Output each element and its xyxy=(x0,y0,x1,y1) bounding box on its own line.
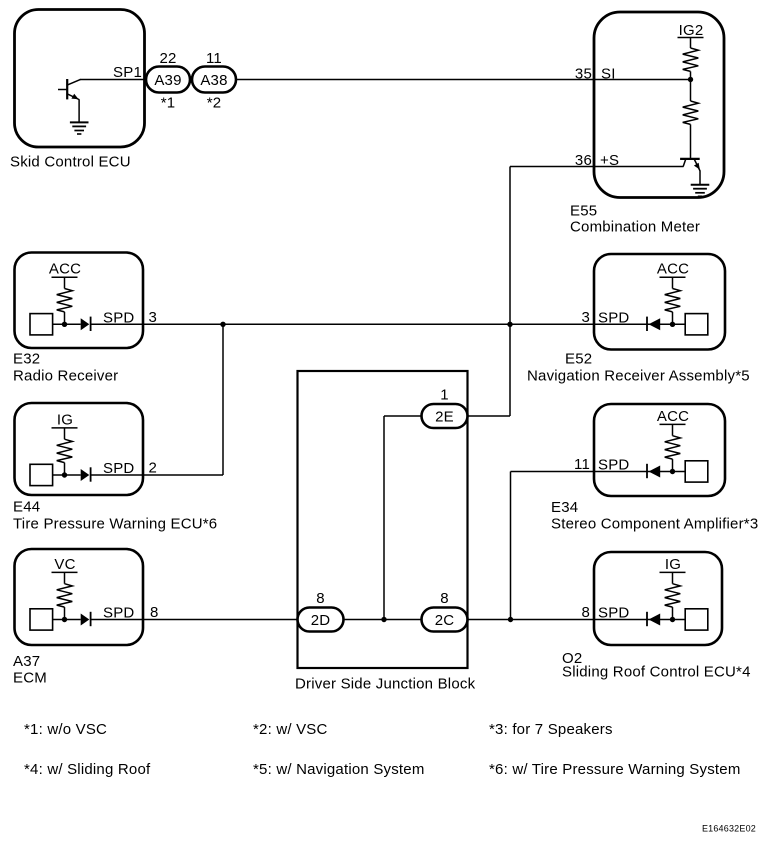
wire +S to junction block 2E (horizontal top) xyxy=(510,166,684,168)
svg-text:1: 1 xyxy=(440,387,449,404)
resistor (E34) xyxy=(665,424,681,471)
component box E52 Navigation Receiver Assembly xyxy=(594,254,725,350)
wire 2E branch vertical xyxy=(383,416,385,620)
svg-text:36: 36 xyxy=(575,152,592,169)
component box A37 ECM xyxy=(15,549,144,645)
transistor (E55) xyxy=(680,159,700,185)
power label ACC (E34) xyxy=(657,408,689,425)
svg-text:2D: 2D xyxy=(311,612,331,629)
wire E34 branch down to 2C output xyxy=(510,472,512,620)
connector square (A37) xyxy=(30,609,53,630)
junction connector 2D (2D) xyxy=(298,608,344,632)
node SPD bus crosses +S riser xyxy=(507,322,512,327)
svg-text:SPD: SPD xyxy=(103,605,134,622)
svg-text:SPD: SPD xyxy=(103,460,134,477)
svg-text:SPD: SPD xyxy=(598,605,629,622)
svg-text:8: 8 xyxy=(150,604,159,621)
power label IG (O2) xyxy=(660,556,686,573)
junction connector 2E (2E) xyxy=(422,404,468,428)
resistor R2 (E55) xyxy=(683,80,699,159)
svg-text:8: 8 xyxy=(316,590,325,607)
svg-text:SPD: SPD xyxy=(103,309,134,326)
power label VC (A37) xyxy=(52,556,78,573)
svg-text:+S: +S xyxy=(600,152,619,169)
node SPD bus to E44 branch xyxy=(220,322,225,327)
svg-text:E164632E02: E164632E02 xyxy=(702,824,756,834)
wire E44 SPD to branch xyxy=(91,474,223,476)
svg-text:IG: IG xyxy=(57,411,73,428)
svg-text:VC: VC xyxy=(54,556,75,573)
wire 2E branch horizontal to oval xyxy=(384,415,422,417)
connector square (E44) xyxy=(30,464,53,485)
component box O2 Sliding Roof Control ECU xyxy=(594,552,722,645)
connector square (O2) xyxy=(685,609,708,630)
ground (Skid Control ECU) xyxy=(70,122,89,134)
svg-text:E34: E34 xyxy=(551,499,578,516)
wire E34 SPD horizontal xyxy=(511,471,648,473)
wire square to diode (E32) xyxy=(53,323,81,325)
node at resistor bottom (E34) xyxy=(670,469,675,474)
resistor R1 (E55) xyxy=(683,38,699,80)
svg-text:3: 3 xyxy=(581,309,590,326)
connector square (E34) xyxy=(685,461,708,482)
svg-text:11: 11 xyxy=(206,50,222,67)
svg-text:*3: for 7 Speakers: *3: for 7 Speakers xyxy=(489,721,613,738)
svg-text:SP1: SP1 xyxy=(113,64,142,81)
node E34 branch joins 2C-Q2 wire xyxy=(508,617,513,622)
svg-text:Stereo Component Amplifier*3: Stereo Component Amplifier*3 xyxy=(551,516,758,533)
junction block box Driver Side Junction Block xyxy=(298,371,468,668)
svg-text:Driver Side Junction Block: Driver Side Junction Block xyxy=(295,676,476,693)
svg-text:A38: A38 xyxy=(200,72,227,89)
power label ACC (E52) xyxy=(657,261,689,278)
svg-text:11: 11 xyxy=(574,456,590,473)
node SI (E55) xyxy=(688,77,693,82)
node at resistor bottom (A37) xyxy=(62,617,67,622)
component box E32 Radio Receiver xyxy=(15,253,144,349)
svg-text:35: 35 xyxy=(575,65,592,82)
node at resistor bottom (E44) xyxy=(62,472,67,477)
svg-text:*2: w/ VSC: *2: w/ VSC xyxy=(253,721,328,738)
svg-text:2C: 2C xyxy=(435,612,455,629)
power label ACC (E32) xyxy=(49,261,81,278)
svg-text:Radio Receiver: Radio Receiver xyxy=(13,368,118,385)
svg-text:*2: *2 xyxy=(207,95,222,112)
svg-text:E55: E55 xyxy=(570,203,597,220)
connector square (E32) xyxy=(30,314,53,335)
diode (E44) xyxy=(81,467,91,481)
wire square to diode (E44) xyxy=(53,474,81,476)
component box E34 Stereo Component Amplifier xyxy=(594,404,725,496)
wire 2C to Q2 SPD xyxy=(468,619,648,621)
wire square to diode (A37) xyxy=(53,619,81,621)
wire +S vertical drop to 2E xyxy=(509,167,511,417)
svg-text:SI: SI xyxy=(601,65,616,82)
wire diode to square (E34) xyxy=(647,471,685,473)
svg-text:ACC: ACC xyxy=(657,261,689,278)
junction connector 2C (2C) xyxy=(422,608,468,632)
svg-text:2E: 2E xyxy=(435,408,454,425)
svg-text:2: 2 xyxy=(149,460,158,477)
svg-text:IG: IG xyxy=(665,556,681,573)
node at resistor bottom (E52) xyxy=(670,322,675,327)
transistor (Skid Control ECU) xyxy=(58,79,81,122)
svg-text:Navigation Receiver Assembly*5: Navigation Receiver Assembly*5 xyxy=(527,368,750,385)
svg-text:8: 8 xyxy=(581,604,590,621)
component box E55 Combination Meter xyxy=(594,12,724,198)
junction connector A39 (A39) xyxy=(146,67,190,93)
svg-text:3: 3 xyxy=(149,309,158,326)
node at resistor bottom (E32) xyxy=(62,322,67,327)
diode (O2) xyxy=(647,612,660,626)
svg-text:A37: A37 xyxy=(13,653,40,670)
svg-text:Skid Control ECU: Skid Control ECU xyxy=(10,154,131,171)
svg-text:E32: E32 xyxy=(13,351,40,368)
component box E44 Tire Pressure Warning ECU xyxy=(15,403,144,495)
node at resistor bottom (O2) xyxy=(670,617,675,622)
diode (E34) xyxy=(647,464,660,478)
wire SP1 to combination meter SI xyxy=(80,79,691,81)
diode (A37) xyxy=(81,612,91,626)
svg-text:Sliding Roof Control ECU*4: Sliding Roof Control ECU*4 xyxy=(562,664,751,681)
svg-text:ACC: ACC xyxy=(657,408,689,425)
svg-text:ECM: ECM xyxy=(13,670,47,687)
resistor (O2) xyxy=(665,572,681,619)
diode (E52) xyxy=(647,317,660,331)
svg-text:Combination Meter: Combination Meter xyxy=(570,219,700,236)
wire diode to square (E52) xyxy=(647,323,685,325)
svg-text:*1: *1 xyxy=(161,95,176,112)
resistor (E44) xyxy=(57,428,73,475)
svg-text:E44: E44 xyxy=(13,499,40,516)
svg-text:ACC: ACC xyxy=(49,261,81,278)
svg-text:Tire Pressure Warning ECU*6: Tire Pressure Warning ECU*6 xyxy=(13,516,217,533)
node 2E branch joins 2D-2C wire xyxy=(381,617,386,622)
svg-text:8: 8 xyxy=(440,590,449,607)
resistor (E52) xyxy=(665,277,681,324)
power label IG (E44) xyxy=(52,411,78,428)
wire branch down to E44 xyxy=(222,324,224,475)
svg-text:*4: w/ Sliding Roof: *4: w/ Sliding Roof xyxy=(24,761,151,778)
svg-text:E52: E52 xyxy=(565,351,592,368)
resistor (E32) xyxy=(57,277,73,324)
svg-text:A39: A39 xyxy=(154,72,181,89)
svg-text:22: 22 xyxy=(159,50,176,67)
wire 2E to +S riser (horizontal) xyxy=(468,415,511,417)
svg-text:*5: w/ Navigation System: *5: w/ Navigation System xyxy=(253,761,425,778)
ground (E55) xyxy=(691,185,710,197)
svg-text:*6: w/ Tire Pressure Warning S: *6: w/ Tire Pressure Warning System xyxy=(489,761,741,778)
wire diode to square (O2) xyxy=(647,619,685,621)
wire 2D to 2C inside junction block xyxy=(344,619,422,621)
svg-text:SPD: SPD xyxy=(598,309,629,326)
wire E32 SPD to E52 SPD (speed signal bus) xyxy=(91,323,647,325)
power label IG2 (E55) xyxy=(678,22,704,39)
svg-text:IG2: IG2 xyxy=(679,22,704,39)
svg-text:*1: w/o VSC: *1: w/o VSC xyxy=(24,721,107,738)
svg-text:SPD: SPD xyxy=(598,457,629,474)
diode (E32) xyxy=(81,317,91,331)
resistor (A37) xyxy=(57,572,73,619)
wire A37 SPD to junction block 2D xyxy=(91,619,298,621)
connector square (E52) xyxy=(685,314,708,335)
component box Skid Control ECU xyxy=(15,10,145,148)
junction connector A38 (A38) xyxy=(192,67,236,93)
